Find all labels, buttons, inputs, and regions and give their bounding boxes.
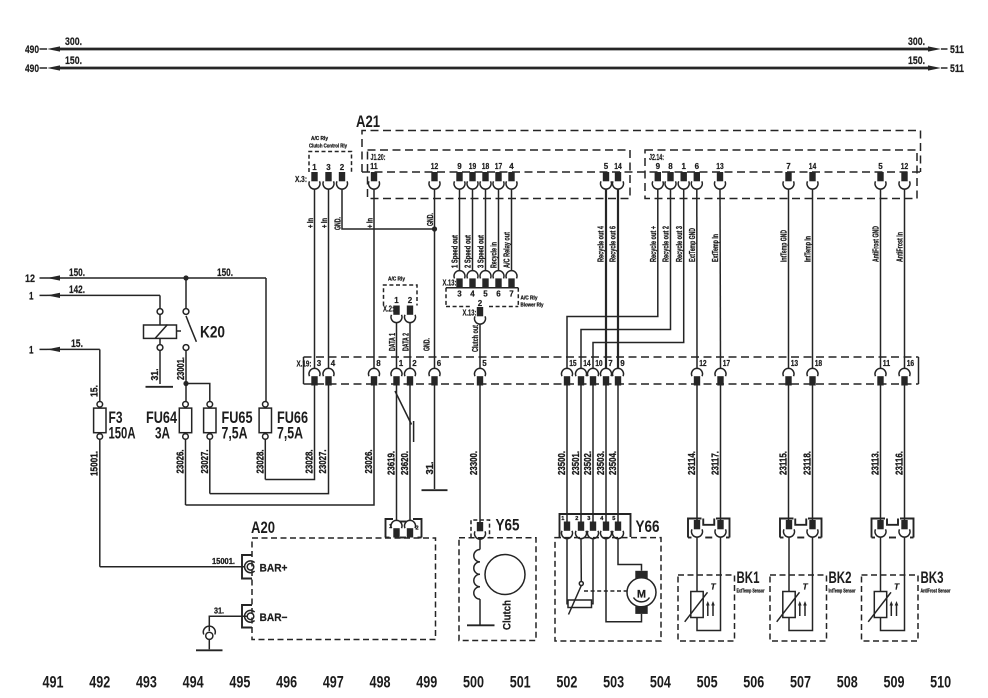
svg-text:3: 3: [326, 163, 331, 172]
svg-text:23503.: 23503.: [596, 451, 607, 475]
BK3 box: [862, 575, 919, 641]
Y66 connector pin 1: [564, 522, 570, 531]
svg-text:DATA 1: DATA 1: [387, 333, 397, 351]
svg-text:BK3: BK3: [921, 569, 944, 587]
svg-text:12: 12: [699, 359, 707, 368]
svg-text:1: 1: [561, 516, 564, 522]
wire Recycle out 4 (J1.20 pin5 to X.19 pin7) thick: [605, 189, 607, 368]
BK2 arrows: [799, 604, 801, 617]
svg-text:A/C Rly: A/C Rly: [311, 136, 329, 142]
X.19 pin 2: [407, 376, 413, 385]
svg-text:18: 18: [815, 359, 823, 368]
connector X.3 box: [309, 152, 352, 173]
BK2 internal wire loop: [789, 537, 813, 630]
mechanical link dashed: [584, 590, 627, 592]
svg-text:503: 503: [603, 673, 624, 692]
Y65 connector pin: [477, 522, 483, 531]
svg-text:511: 511: [950, 63, 964, 75]
svg-text:150.: 150.: [217, 267, 233, 279]
X.13 pin 5: [482, 278, 488, 287]
wire 31. to ground: [209, 616, 246, 631]
junction fuse feed: [183, 381, 188, 386]
svg-text:2: 2: [412, 359, 417, 368]
svg-text:Recycle out 3: Recycle out 3: [674, 226, 684, 262]
svg-text:6: 6: [437, 359, 442, 368]
A21 pin 14 at x=812.5: [809, 172, 815, 181]
svg-text:Clutch Control Rly: Clutch Control Rly: [309, 144, 348, 150]
svg-text:501: 501: [510, 673, 531, 692]
A20 pin 1: [393, 528, 399, 537]
svg-text:23001.: 23001.: [176, 357, 187, 380]
svg-text:IntTemp Sensor: IntTemp Sensor: [829, 589, 857, 595]
svg-text:23502.: 23502.: [583, 451, 594, 475]
svg-text:BAR+: BAR+: [260, 563, 288, 575]
A21 outer box: [362, 131, 921, 173]
svg-text:DATA 2: DATA 2: [401, 333, 411, 351]
svg-text:9: 9: [457, 162, 462, 171]
svg-text:2 Speed out: 2 Speed out: [463, 235, 473, 268]
svg-text:A/C Rly: A/C Rly: [521, 296, 539, 302]
svg-text:23028.: 23028.: [305, 449, 316, 473]
svg-text:497: 497: [323, 673, 344, 692]
svg-text:14: 14: [809, 162, 817, 171]
svg-text:Recycle out 4: Recycle out 4: [596, 226, 606, 262]
svg-text:BAR−: BAR−: [260, 612, 288, 624]
connector J2.14 box: [645, 150, 917, 199]
svg-text:GND.: GND.: [422, 338, 432, 351]
A21 pin 18 at x=485.5: [482, 172, 488, 181]
svg-text:+ In: + In: [305, 218, 315, 228]
A21 pin 8 at x=670.5: [667, 172, 673, 181]
svg-text:Y66: Y66: [636, 518, 660, 536]
svg-text:AntiFrost Sensor: AntiFrost Sensor: [921, 589, 952, 595]
svg-text:Y65: Y65: [496, 517, 520, 535]
svg-text:12: 12: [431, 162, 439, 171]
svg-text:M: M: [637, 589, 646, 601]
svg-text:12: 12: [901, 162, 909, 171]
wire 23300. to Y65: [479, 386, 481, 523]
svg-text:1 Speed out: 1 Speed out: [450, 235, 460, 268]
sensor BK1 connector bracket: [688, 519, 702, 538]
wire 23114. to sensor: [696, 386, 698, 521]
svg-text:IntTemp GND: IntTemp GND: [779, 230, 789, 262]
svg-text:4: 4: [470, 290, 475, 299]
sensor BK2 connector bracket: [780, 519, 794, 538]
junction 150/K20: [183, 275, 188, 280]
svg-text:1: 1: [29, 344, 34, 356]
svg-text:23619.: 23619.: [387, 451, 398, 475]
BK1 box: [678, 575, 735, 641]
svg-text:X.2:: X.2:: [383, 305, 394, 314]
svg-text:17: 17: [723, 359, 731, 368]
svg-text:7: 7: [509, 290, 514, 299]
BK1 internal wire loop: [697, 537, 721, 630]
A21 pin 5 at x=606: [603, 172, 609, 181]
svg-text:23028.: 23028.: [255, 449, 266, 473]
svg-text:300.: 300.: [908, 36, 925, 48]
K20 coil terminal bottom: [157, 345, 163, 351]
BK2 box: [770, 575, 827, 641]
Y66 wiper: [579, 582, 583, 586]
svg-text:31.: 31.: [425, 461, 436, 474]
X.19 pin 18: [809, 376, 815, 385]
svg-text:23114.: 23114.: [687, 451, 698, 475]
svg-text:BK2: BK2: [829, 569, 852, 587]
svg-text:Clutch: Clutch: [502, 600, 514, 630]
svg-text:17: 17: [495, 162, 503, 171]
wire Y66 pin1 to pot: [567, 539, 568, 604]
X.19 pin 14: [578, 376, 584, 385]
svg-text:7,5A: 7,5A: [222, 425, 248, 443]
svg-text:19: 19: [469, 162, 477, 171]
svg-text:23118.: 23118.: [803, 451, 814, 475]
svg-text:23027.: 23027.: [318, 449, 329, 473]
svg-text:23500.: 23500.: [557, 451, 568, 475]
wire A21 to X.13 pin 5: [485, 189, 487, 270]
svg-text:BK1: BK1: [737, 569, 760, 587]
Y66 feedback pot resistor: [568, 600, 592, 608]
wire IntTemp GND (J2.14 pin7 to X.19 pin13): [788, 189, 790, 368]
wire Recycle out 6 (J1.20 pin14 to X.19 pin9) thick: [617, 189, 619, 368]
svg-text:K20: K20: [200, 324, 225, 342]
wire 23027. below FU65: [209, 439, 211, 493]
K20 coil ground wire: [159, 350, 161, 384]
wire 23118. to sensor: [812, 386, 814, 521]
svg-text:31.: 31.: [150, 368, 161, 380]
wire bus 300 (net 490-511): [60, 48, 929, 51]
svg-text:491: 491: [43, 673, 64, 692]
wire A21 pin12 GND to X.19 pin6: [434, 189, 436, 368]
X.19 pin 6: [431, 376, 437, 385]
wire AntiFrost In (J2.14 pin12 to X.19 pin16): [904, 189, 906, 368]
svg-text:A/C Rly: A/C Rly: [388, 277, 406, 283]
svg-text:2: 2: [575, 516, 578, 522]
A21 pin 14 at x=618: [615, 172, 621, 181]
svg-text:1: 1: [29, 290, 34, 302]
ground bar K20: [146, 386, 174, 388]
svg-text:12: 12: [25, 273, 35, 285]
svg-text:23026.: 23026.: [176, 449, 187, 473]
svg-text:15.: 15.: [90, 385, 101, 397]
wire A21 to X.13 pin 7: [511, 189, 513, 270]
svg-text:18: 18: [482, 162, 490, 171]
terminal BAR+: [242, 555, 252, 579]
svg-text:6: 6: [496, 290, 501, 299]
wire AntiFrost GND (J2.14 pin5 to X.19 pin11): [880, 189, 882, 368]
Y65 ground bar: [467, 624, 495, 626]
svg-text:Clutch out: Clutch out: [470, 325, 480, 352]
BK2 connector pin 2: [809, 520, 815, 529]
wire 23026. riser to X.19 pin8: [186, 386, 375, 506]
wire 23503. to Y66: [605, 386, 607, 522]
svg-text:2: 2: [416, 526, 419, 532]
svg-text:1: 1: [389, 524, 392, 530]
wire to FU65: [186, 384, 210, 402]
svg-text:23117.: 23117.: [711, 451, 722, 475]
A21 bottom edge / pin row line: [362, 171, 921, 173]
wire X.3 pin1 to X.19 pin3 (+ In): [314, 189, 316, 368]
X.19 pin 15: [564, 376, 570, 385]
svg-text:4: 4: [600, 516, 604, 522]
wire IntTemp In (J2.14 pin14 to X.19 pin18): [812, 189, 814, 368]
wire A21 to X.13 pin 6: [498, 189, 500, 270]
X.13 pin 6: [495, 278, 501, 287]
svg-text:23116.: 23116.: [895, 451, 906, 475]
svg-text:5: 5: [612, 516, 615, 522]
wire ExtTemp GND (J2.14 pin6 to X.19 pin12): [696, 189, 698, 368]
svg-text:6: 6: [695, 162, 700, 171]
svg-text:23113.: 23113.: [871, 451, 882, 475]
wire ExtTemp In (J2.14 pin13 to X.19 pin17): [719, 189, 722, 368]
svg-text:1: 1: [399, 359, 404, 368]
X.19 pin 1: [393, 376, 399, 385]
X.19 pin 9: [615, 376, 621, 385]
svg-text:8: 8: [376, 359, 381, 368]
BK2 connector pin 1: [786, 520, 792, 529]
svg-text:490: 490: [25, 44, 39, 56]
fuse FU66 7,5A: [263, 402, 269, 408]
A21 pin 6 at x=696.8: [694, 172, 700, 181]
BK3 connector pin 1: [877, 520, 883, 529]
X.19 pin 8: [371, 376, 377, 385]
svg-text:499: 499: [416, 673, 437, 692]
svg-text:13: 13: [791, 359, 799, 368]
svg-text:498: 498: [370, 673, 391, 692]
wire Recycle out + (J2.14 pin9 to X.19 pin15): [567, 189, 658, 368]
svg-text:508: 508: [837, 673, 858, 692]
svg-text:142.: 142.: [69, 284, 85, 296]
svg-text:5: 5: [482, 359, 487, 368]
svg-text:500: 500: [463, 673, 484, 692]
X.3 pin 2: [339, 172, 345, 181]
svg-text:490: 490: [25, 63, 39, 75]
X.2 pin 2: [407, 306, 413, 315]
K20 coil: [144, 325, 177, 338]
svg-text:7: 7: [786, 162, 791, 171]
svg-text:150.: 150.: [65, 55, 82, 67]
svg-text:2: 2: [478, 299, 483, 308]
svg-text:ExtTemp GND: ExtTemp GND: [687, 228, 697, 262]
svg-text:492: 492: [89, 673, 110, 692]
BK2 thermistor: [788, 537, 790, 591]
connector J1.20 box: [368, 150, 631, 199]
svg-text:23027.: 23027.: [200, 449, 211, 473]
svg-text:502: 502: [556, 673, 577, 692]
wire Y66 pin3 to pot right: [592, 539, 594, 604]
X.19 pin 7: [603, 376, 609, 385]
BK3 connector pin 2: [901, 520, 907, 529]
svg-text:493: 493: [136, 673, 157, 692]
A21 pin 11 at x=374: [371, 172, 377, 181]
wire 31. ground stub: [434, 386, 436, 490]
Y65 box: [459, 538, 536, 641]
wire 23500. to Y66: [566, 386, 568, 522]
svg-text:15001.: 15001.: [90, 451, 101, 476]
K20 switch terminal top: [183, 309, 189, 315]
svg-text:507: 507: [790, 673, 811, 692]
svg-text:AntiFrost In: AntiFrost In: [895, 232, 905, 262]
Y65 coil: [479, 539, 481, 549]
svg-text:2: 2: [408, 296, 413, 305]
Y66 connector pin 3: [590, 522, 596, 531]
fuse FU65 7,5A: [207, 402, 213, 408]
fuse FU64 3A: [183, 402, 189, 408]
svg-text:3A: 3A: [155, 425, 170, 443]
svg-text:511: 511: [950, 44, 964, 56]
svg-text:A20: A20: [251, 519, 275, 537]
svg-text:IntTemp In: IntTemp In: [803, 236, 813, 262]
svg-text:9: 9: [620, 359, 625, 368]
svg-text:2: 2: [340, 163, 345, 172]
X.19 pin 10: [590, 376, 596, 385]
wire X.3 pin2 GND to junction: [342, 189, 435, 229]
svg-text:3: 3: [587, 516, 590, 522]
svg-text:7: 7: [608, 359, 613, 368]
svg-text:Recycle out 2: Recycle out 2: [661, 226, 671, 262]
wire Y66 pin5 to motor top: [618, 539, 642, 571]
wire 15. feed line: [47, 348, 100, 350]
svg-text:GND.: GND.: [425, 213, 435, 226]
wire 23502. to Y66: [592, 386, 594, 522]
X.13 pin 3: [456, 278, 462, 287]
A21 pin 7 at x=788.5: [785, 172, 791, 181]
X.3 pin 3: [325, 172, 331, 181]
wire A21 pin11 to X.19 pin8 (+ In): [373, 189, 375, 368]
svg-text:11: 11: [883, 359, 891, 368]
svg-text:23026.: 23026.: [364, 449, 375, 473]
svg-text:300.: 300.: [65, 36, 82, 48]
Y66 connector pin 5: [615, 522, 621, 531]
wire 15001.: [99, 439, 101, 567]
svg-text:509: 509: [883, 673, 904, 692]
svg-text:15.: 15.: [71, 338, 83, 350]
sensor BK3 connector bracket: [872, 519, 886, 538]
K20 switch blade: [186, 316, 189, 324]
svg-text:J2.14:: J2.14:: [649, 153, 664, 162]
Y65 connector bracket: [471, 520, 490, 538]
svg-text:T: T: [711, 582, 717, 592]
svg-text:5: 5: [604, 162, 609, 171]
svg-text:14: 14: [614, 162, 622, 171]
svg-text:1: 1: [312, 163, 317, 172]
svg-text:4: 4: [331, 359, 336, 368]
svg-text:+ In: + In: [319, 218, 329, 228]
wire 23026. below FU64: [185, 439, 187, 505]
X.19 pin 5: [477, 376, 483, 385]
wire 23028. below FU66: [264, 439, 266, 479]
svg-text:13: 13: [716, 162, 724, 171]
BK3 internal wire loop: [881, 537, 905, 630]
svg-text:AntiFrost GND: AntiFrost GND: [871, 226, 881, 262]
wire Recycle out 3 (J2.14 pin1 to X.19 pin10): [593, 189, 684, 368]
wire 23001.: [185, 350, 187, 383]
svg-text:494: 494: [183, 673, 204, 692]
svg-text:31.: 31.: [214, 606, 224, 616]
svg-text:15: 15: [569, 359, 577, 368]
chassis ground symbol: [203, 626, 215, 634]
wire 15001 to BAR+: [100, 566, 245, 568]
svg-text:T: T: [894, 582, 900, 592]
svg-text:5: 5: [878, 162, 883, 171]
svg-text:ExtTemp Sensor: ExtTemp Sensor: [737, 589, 766, 595]
svg-text:8: 8: [668, 162, 673, 171]
A21 pin 17 at x=498.5: [495, 172, 501, 181]
svg-text:150A: 150A: [109, 425, 136, 443]
X.19 pin 16: [901, 376, 907, 385]
wire 23028. riser to X.19 pin3: [265, 386, 314, 480]
svg-text:150.: 150.: [908, 55, 925, 67]
K20 switch terminal bottom: [183, 345, 189, 351]
svg-text:496: 496: [276, 673, 297, 692]
wire 150. feed line: [47, 277, 266, 279]
wire DATA 1 to X.19 pin1: [396, 323, 398, 369]
svg-text:510: 510: [930, 673, 951, 692]
X.13 pin 7: [508, 278, 514, 287]
svg-text:X.3:: X.3:: [295, 175, 307, 184]
svg-text:T: T: [803, 582, 809, 592]
A21 pin 12 at x=434.5: [431, 172, 437, 181]
X.19 pin 13: [785, 376, 791, 385]
connector X.19 upper rail: [304, 356, 919, 358]
svg-text:X.19:: X.19:: [297, 360, 312, 369]
wire A21 to X.13 pin 4: [472, 189, 474, 270]
svg-text:16: 16: [907, 359, 915, 368]
wire 23027. riser to X.19 pin4: [210, 386, 329, 494]
Y66 connector bracket: [560, 514, 631, 537]
X.3 pin 1: [311, 172, 317, 181]
wire 23113. to sensor: [880, 386, 882, 521]
wire DATA 2 to X.19 pin2: [409, 323, 411, 369]
A20 box: [252, 538, 436, 640]
svg-text:150.: 150.: [69, 267, 85, 279]
wire 23501. to Y66: [580, 386, 582, 522]
svg-text:Blower Rly: Blower Rly: [521, 303, 545, 309]
svg-text:504: 504: [650, 673, 671, 692]
A21 pin 1 at x=683.7: [681, 172, 687, 181]
A21 pin 9 at x=657.8: [655, 172, 661, 181]
svg-text:23501.: 23501.: [571, 451, 582, 475]
Y66 box: [555, 538, 661, 641]
svg-text:23300.: 23300.: [469, 451, 480, 475]
wire 23620. to A20 pin2: [409, 386, 411, 521]
X.13 pin 4: [469, 278, 475, 287]
svg-text:Recycle out +: Recycle out +: [648, 226, 658, 262]
svg-text:Recycle out 6: Recycle out 6: [608, 226, 618, 262]
svg-text:7,5A: 7,5A: [277, 425, 303, 443]
BK1 connector pin 2: [717, 520, 723, 529]
fuse F3 150A: [97, 402, 103, 408]
svg-text:3 Speed out: 3 Speed out: [476, 235, 486, 268]
wire bus 150 (net 490-511): [60, 67, 929, 70]
connector X.19 lower rail: [304, 383, 919, 385]
wire 142. feed line: [47, 294, 160, 296]
svg-text:11: 11: [370, 162, 378, 171]
svg-text:495: 495: [229, 673, 250, 692]
BK1 thermistor: [696, 537, 698, 591]
A21 pin 12 at x=904.5: [901, 172, 907, 181]
svg-text:15001.: 15001.: [212, 556, 235, 566]
svg-text:3: 3: [457, 290, 462, 299]
svg-text:10: 10: [595, 359, 603, 368]
wire A21 to X.13 pin 3: [459, 189, 461, 270]
terminal BAR-: [242, 605, 252, 628]
BK1 connector pin 1: [694, 520, 700, 529]
svg-text:1: 1: [394, 296, 399, 305]
Y66 connector pin 4: [603, 522, 609, 531]
svg-text:A21: A21: [356, 113, 380, 131]
svg-text:Recycle in: Recycle in: [489, 242, 499, 268]
svg-text:A/C Relay out: A/C Relay out: [502, 232, 512, 268]
